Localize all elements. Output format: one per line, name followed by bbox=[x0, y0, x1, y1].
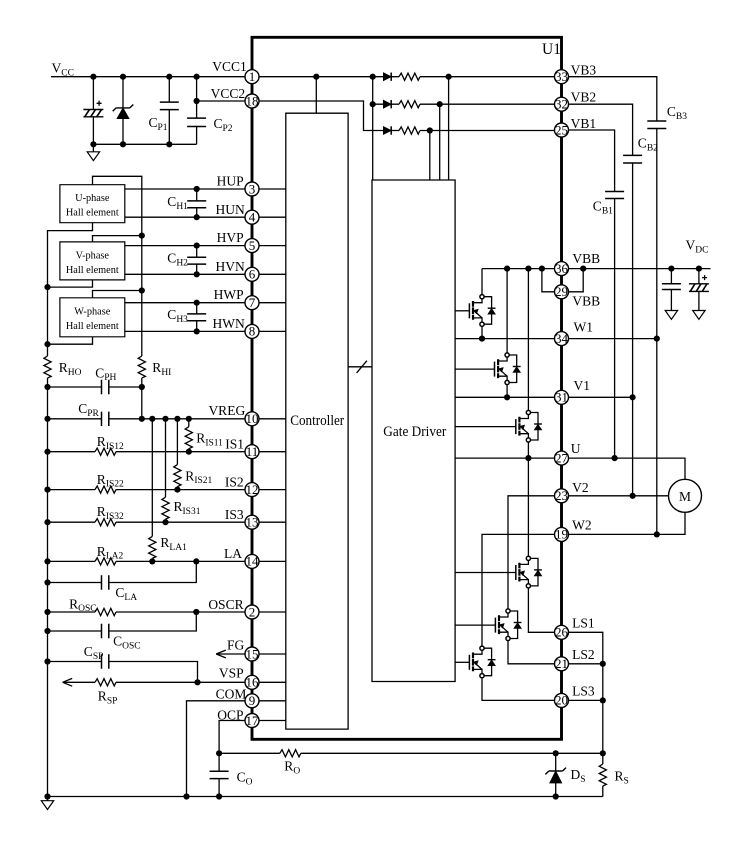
wire V hall top wire bbox=[93, 236, 142, 242]
node bias rail / C_PH bbox=[139, 384, 145, 390]
node row2 feed bbox=[370, 101, 376, 107]
wire controller VCC tap bbox=[315, 77, 317, 114]
svg-text:33: 33 bbox=[555, 69, 568, 84]
svg-text:V-phase: V-phase bbox=[76, 250, 110, 261]
wire Q4 source lead to LS1 bbox=[528, 588, 554, 632]
svg-text:HUP: HUP bbox=[217, 173, 244, 188]
node W1 / W-high source bbox=[479, 336, 485, 342]
resistor R_IS11 bbox=[185, 419, 192, 452]
svg-text:29: 29 bbox=[555, 284, 568, 299]
svg-text:6: 6 bbox=[249, 267, 256, 282]
svg-text:9: 9 bbox=[249, 693, 256, 708]
svg-text:VBB: VBB bbox=[572, 294, 600, 309]
pin 21 (LS2) bbox=[555, 656, 569, 671]
svg-text:21: 21 bbox=[555, 656, 568, 671]
wire VBB line bbox=[482, 268, 711, 270]
svg-text:7: 7 bbox=[249, 295, 256, 310]
resistor R_S bbox=[599, 753, 606, 796]
svg-text:11: 11 bbox=[246, 444, 259, 459]
svg-text:HUN: HUN bbox=[216, 202, 245, 217]
svg-text:14: 14 bbox=[246, 554, 260, 569]
svg-text:LA: LA bbox=[224, 546, 242, 561]
svg-text:31: 31 bbox=[555, 390, 568, 405]
ground symbol VCC section bbox=[87, 144, 99, 160]
wire IS3 row bbox=[48, 521, 246, 523]
transistor Q6 low-side W bbox=[455, 646, 495, 678]
wire Q1 drain lead bbox=[481, 269, 483, 295]
motor M bbox=[669, 479, 702, 512]
pin 29 (VBB) bbox=[555, 284, 569, 299]
svg-text:20: 20 bbox=[555, 693, 568, 708]
wire LS3 wire bbox=[569, 699, 603, 701]
node left rail / W hall bbox=[44, 341, 50, 347]
node HVN / C_H2 bbox=[194, 271, 200, 277]
pin 15 (FG) bbox=[245, 646, 259, 661]
node VB3 / gate-driver drop bbox=[446, 74, 452, 80]
svg-text:27: 27 bbox=[555, 450, 569, 465]
wire HUN wire bbox=[125, 216, 245, 218]
node left rail / IS1 bbox=[44, 449, 50, 455]
wire HWN wire bbox=[125, 330, 245, 332]
block W-phase Hall element bbox=[60, 298, 125, 337]
wire VB3 to C_B3 and W phase tie bbox=[569, 77, 657, 535]
node IS1 / R_IS11 bbox=[186, 449, 192, 455]
svg-text:U: U bbox=[571, 441, 581, 456]
node VCC rail / VCC2 tie bbox=[194, 74, 200, 80]
wire U hall bottom wire + left rail upper bbox=[48, 223, 93, 356]
node left rail / IS2 bbox=[44, 487, 50, 493]
node VSP / C_SP bbox=[194, 679, 200, 685]
wire W1 row internal bbox=[455, 338, 554, 340]
wire VCC2 jog to row3 (pin18 to pin25) bbox=[259, 101, 555, 131]
transistor Q1 high-side W bbox=[455, 295, 495, 327]
node VCC rail / input cap bbox=[90, 74, 96, 80]
resistor R_HO bbox=[44, 356, 51, 378]
wire COM wire to ground bbox=[187, 701, 246, 797]
node IS3 / R_IS31 bbox=[162, 519, 168, 525]
node V tie / V2 bbox=[630, 493, 636, 499]
node VBB / pin36-29 left bracket bbox=[539, 266, 545, 272]
resistor R_IS31 bbox=[162, 419, 169, 522]
node VBB / V-high drain bbox=[504, 266, 510, 272]
wire pin36-29 left bracket bbox=[542, 269, 555, 292]
node HUP / C_H1 bbox=[194, 186, 200, 192]
node VCC1 / row2 feed bbox=[370, 74, 376, 80]
svg-text:17: 17 bbox=[246, 713, 260, 728]
pin 19 (W2) bbox=[555, 527, 569, 542]
wire VB2 to C_B2 and V phase tie bbox=[569, 104, 633, 496]
transistor Q2 high-side V bbox=[455, 353, 520, 385]
capacitor C_H3 bbox=[187, 303, 206, 332]
pin 34 (W1) bbox=[555, 331, 569, 346]
wire HWP wire bbox=[125, 302, 245, 304]
node VCC rail / C_P1 bbox=[166, 74, 172, 80]
node ground rail / zener bbox=[120, 141, 126, 147]
pin 10 (VREG) bbox=[245, 411, 259, 426]
node LS rail / LS2 bbox=[600, 661, 606, 667]
node bias rail / W hall bbox=[139, 287, 145, 293]
capacitor C_OSC bbox=[102, 624, 109, 638]
node HWN / C_H3 bbox=[194, 328, 200, 334]
node left rail / LA bbox=[44, 558, 50, 564]
wire VCC supply rail bbox=[51, 76, 245, 78]
wire Q6 source lead to LS3 bbox=[482, 678, 555, 701]
wire C_LA row bbox=[48, 561, 197, 582]
wire row1-row2 feed / gate driver corner bbox=[372, 77, 374, 180]
capacitor C_O bbox=[210, 753, 229, 796]
node VREG / R_LA1 bbox=[149, 416, 155, 422]
svg-text:V1: V1 bbox=[574, 378, 591, 393]
svg-text:23: 23 bbox=[555, 488, 568, 503]
pin 32 (VB2) bbox=[555, 97, 569, 112]
svg-text:W1: W1 bbox=[574, 320, 594, 335]
svg-text:8: 8 bbox=[249, 324, 256, 339]
wire W hall top wire bbox=[93, 291, 142, 298]
svg-text:Hall element: Hall element bbox=[66, 321, 119, 332]
capacitor C_P1 bbox=[160, 77, 179, 145]
wire V1 row external bbox=[569, 396, 633, 398]
capacitor C_B3 bbox=[647, 121, 666, 129]
pin 6 (HVN) bbox=[245, 267, 259, 282]
node VREG / R_HI bbox=[139, 416, 145, 422]
capacitor C_SP bbox=[102, 654, 109, 668]
wire VB2 drop to gate driver bbox=[439, 104, 441, 180]
resistor R_LA1 bbox=[149, 419, 156, 562]
pin 12 (IS2) bbox=[245, 482, 259, 497]
node OSCR / C_OSC riser bbox=[193, 609, 199, 615]
wire IS1 row bbox=[48, 451, 246, 453]
wire Q4 drain lead bbox=[527, 458, 529, 556]
pin 20 (LS3) bbox=[555, 693, 569, 708]
wire R_HI lower lead bbox=[141, 378, 143, 419]
node VCC1 / controller tap bbox=[313, 74, 319, 80]
resistor R_IS21 bbox=[174, 419, 181, 490]
block U-phase Hall element bbox=[60, 185, 125, 223]
node ground rail / C_P1 bbox=[166, 141, 172, 147]
svg-text:10: 10 bbox=[246, 411, 259, 426]
wire row2 to VB2 (pin32) bbox=[373, 103, 555, 105]
wire LS1 tie rail bbox=[569, 632, 603, 753]
svg-text:19: 19 bbox=[555, 527, 568, 542]
node VB2 / gate-driver drop bbox=[437, 101, 443, 107]
pin 26 (LS1) bbox=[555, 625, 569, 640]
op-amp U1 IC outline box bbox=[252, 37, 562, 739]
node sense line / R_S / LS rail bbox=[600, 750, 606, 756]
node VBB / pin36-29 right bracket bbox=[580, 266, 586, 272]
pin 4 (HUN) bbox=[245, 210, 259, 225]
svg-text:34: 34 bbox=[555, 331, 569, 346]
wire W1 row external bbox=[569, 338, 657, 340]
node ground / COM bbox=[183, 793, 189, 799]
wire VSP row bbox=[63, 681, 245, 683]
node VBB / VDC ceramic cap bbox=[668, 266, 674, 272]
pin 16 (VSP) bbox=[245, 675, 259, 690]
svg-text:HWP: HWP bbox=[214, 287, 244, 302]
wire HVN wire bbox=[125, 273, 245, 275]
svg-text:16: 16 bbox=[246, 675, 260, 690]
resistor R_O bbox=[280, 750, 301, 757]
wire VCC2 wire to pin 18 bbox=[197, 100, 245, 102]
svg-text:OCP: OCP bbox=[217, 707, 243, 722]
svg-text:U-phase: U-phase bbox=[75, 193, 110, 204]
capacitor C_PH bbox=[102, 380, 109, 394]
pin 18 (VCC2) bbox=[245, 93, 259, 108]
capacitor C_H1 bbox=[187, 189, 206, 217]
wire Q2 source lead bbox=[506, 385, 508, 398]
node HWP / C_H3 bbox=[194, 300, 200, 306]
pin 2 (OSCR) bbox=[245, 604, 259, 619]
capacitor VDC ceramic bbox=[662, 269, 681, 311]
svg-text:Hall element: Hall element bbox=[66, 265, 119, 276]
svg-text:M: M bbox=[679, 489, 691, 504]
wire Q3 drain lead bbox=[527, 269, 529, 411]
node VBB / U-high drain bbox=[525, 266, 531, 272]
ground symbol VDC electrolytic bbox=[693, 311, 705, 320]
resistor bootstrap row3 bbox=[399, 127, 420, 134]
wire Q3 source lead bbox=[527, 442, 529, 458]
pin 11 (IS1) bbox=[245, 444, 259, 459]
resistor R_OSC bbox=[95, 608, 116, 615]
wire V hall bottom wire bbox=[48, 280, 93, 287]
node left rail / C_SP bbox=[44, 658, 50, 664]
wire HVP wire bbox=[125, 245, 245, 247]
capacitor C_LA bbox=[102, 575, 109, 589]
node left rail / OSCR bbox=[44, 609, 50, 615]
wire hall bias rail (U hall top to R_HI) bbox=[93, 176, 142, 356]
svg-text:V2: V2 bbox=[572, 480, 589, 495]
node VREG / R_IS11 bbox=[186, 416, 192, 422]
transistor Q3 high-side U bbox=[455, 410, 542, 442]
svg-text:COM: COM bbox=[216, 686, 247, 701]
wire FG wire bbox=[216, 653, 245, 655]
node IS2 / R_IS21 bbox=[174, 487, 180, 493]
wire C_PH row bbox=[48, 386, 142, 388]
wire VCC1 row to VB3 (pin1 to pin33) bbox=[259, 76, 555, 78]
svg-text:VB1: VB1 bbox=[571, 116, 597, 131]
svg-text:IS3: IS3 bbox=[225, 507, 244, 522]
node U / U-high source / U-low drain bbox=[525, 455, 531, 461]
wire VB1 to C_B1 and U tie bbox=[569, 130, 615, 458]
pin 27 (U) bbox=[555, 450, 569, 465]
capacitor electrolytic input (polarized) bbox=[83, 77, 103, 145]
resistor bootstrap row1 bbox=[399, 73, 420, 80]
node ground rail / left rail bbox=[44, 793, 50, 799]
node VBB / VDC electrolytic cap bbox=[696, 266, 702, 272]
node V1 / V-high source bbox=[504, 394, 510, 400]
svg-text:32: 32 bbox=[555, 97, 568, 112]
wire OSCR row bbox=[48, 611, 246, 613]
node W tie / W2 bbox=[654, 531, 660, 537]
svg-text:15: 15 bbox=[246, 646, 259, 661]
node bias rail / V hall bbox=[139, 233, 145, 239]
wire V1 row internal bbox=[455, 396, 554, 398]
wire OCP wire bbox=[219, 721, 245, 754]
wire V2 row internal bbox=[508, 496, 555, 609]
node left rail / V hall bbox=[44, 284, 50, 290]
pin 5 (HVP) bbox=[245, 238, 259, 253]
capacitor C_P2 bbox=[187, 101, 206, 144]
node VB1 / gate-driver drop bbox=[427, 127, 433, 133]
svg-text:4: 4 bbox=[249, 210, 256, 225]
pin 25 (VB1) bbox=[555, 122, 569, 137]
svg-text:Hall element: Hall element bbox=[66, 207, 119, 218]
block V-phase Hall element bbox=[60, 242, 125, 280]
capacitor VDC electrolytic (polarized) bbox=[689, 269, 709, 311]
node VCC2 / C_P2 bbox=[194, 98, 200, 104]
block Gate Driver box bbox=[372, 180, 455, 682]
svg-text:LS2: LS2 bbox=[572, 647, 595, 662]
wire main ground rail bbox=[48, 796, 603, 798]
wire stubs left pins to Controller bbox=[259, 189, 286, 721]
node LS rail / LS3 bbox=[600, 697, 606, 703]
wire W2 row internal bbox=[482, 534, 555, 646]
wire C_OSC row bbox=[48, 612, 197, 631]
svg-text:18: 18 bbox=[246, 93, 259, 108]
node LA / C_LA riser bbox=[193, 558, 199, 564]
resistor bootstrap row2 bbox=[399, 101, 420, 108]
resistor R_IS32 bbox=[95, 519, 116, 526]
wire left bias rail (R_HO to ground) bbox=[47, 378, 49, 797]
pin 9 (COM) bbox=[245, 693, 259, 708]
wire current sense row (OCP filter) bbox=[219, 752, 603, 754]
resistor R_IS22 bbox=[95, 486, 116, 493]
resistor R_HI bbox=[138, 356, 145, 378]
node HUN / C_H1 bbox=[194, 214, 200, 220]
wire VCC1-VCC2 tie bbox=[196, 77, 198, 101]
pin 14 (LA) bbox=[245, 554, 259, 569]
diode bootstrap D row3 bbox=[383, 127, 391, 135]
bus slash mark bbox=[357, 361, 367, 373]
wire LS2 wire bbox=[569, 663, 603, 665]
node ground / C_O bbox=[216, 793, 222, 799]
pin 33 (VB3) bbox=[555, 69, 569, 84]
wire U row external to motor bbox=[569, 458, 686, 479]
node ground / D_S bbox=[553, 793, 559, 799]
capacitor C_B2 bbox=[623, 155, 642, 163]
wire LA row bbox=[48, 560, 246, 562]
wire VREG row bbox=[48, 418, 246, 420]
pin 23 (V2) bbox=[555, 488, 569, 503]
svg-text:U1: U1 bbox=[542, 41, 561, 58]
capacitor C_H2 bbox=[187, 246, 206, 275]
zener diode VCC clamp bbox=[113, 77, 134, 145]
wire VCC local ground rail bbox=[93, 143, 196, 145]
node U tie / U line bbox=[612, 455, 618, 461]
pin 31 (V1) bbox=[555, 390, 569, 405]
node sense line / D_S bbox=[553, 750, 559, 756]
node VREG / R_IS21 bbox=[174, 416, 180, 422]
svg-text:VREG: VREG bbox=[208, 403, 245, 418]
svg-text:VB2: VB2 bbox=[571, 90, 597, 105]
wire U row internal bbox=[455, 457, 554, 459]
node left rail / IS3 bbox=[44, 519, 50, 525]
node left rail / C_OSC bbox=[44, 628, 50, 634]
wire W2 row external to motor bbox=[569, 512, 686, 534]
svg-text:FG: FG bbox=[227, 638, 245, 653]
pin 8 (HWN) bbox=[245, 324, 259, 339]
svg-text:VBB: VBB bbox=[572, 251, 600, 266]
node HVP / C_H2 bbox=[194, 243, 200, 249]
wire Q5 source lead to LS2 bbox=[508, 641, 555, 664]
svg-text:VCC1: VCC1 bbox=[212, 59, 247, 74]
zener diode D_S bbox=[545, 753, 566, 796]
wire W hall bottom wire bbox=[48, 337, 93, 344]
arrow FG output bbox=[216, 650, 226, 658]
resistor R_LA2 bbox=[95, 558, 116, 565]
svg-text:36: 36 bbox=[555, 261, 569, 276]
capacitor C_PR bbox=[102, 412, 109, 426]
node W tie / W1 bbox=[654, 336, 660, 342]
node left rail / C_PH bbox=[44, 384, 50, 390]
svg-text:OSCR: OSCR bbox=[208, 597, 243, 612]
svg-text:5: 5 bbox=[249, 238, 256, 253]
svg-text:Gate Driver: Gate Driver bbox=[383, 424, 446, 440]
svg-text:W2: W2 bbox=[572, 518, 592, 533]
svg-text:LS3: LS3 bbox=[572, 684, 595, 699]
node ground rail / input cap bbox=[90, 141, 96, 147]
transistor Q5 low-side V bbox=[455, 609, 521, 641]
wire pin36-29 right bracket bbox=[569, 269, 584, 292]
capacitor C_B1 bbox=[605, 192, 624, 199]
wire IS2 row bbox=[48, 489, 246, 491]
svg-text:VB3: VB3 bbox=[571, 63, 597, 78]
pin 7 (HWP) bbox=[245, 295, 259, 310]
wire VB1 drop to gate driver bbox=[429, 131, 431, 181]
svg-text:13: 13 bbox=[246, 515, 259, 530]
svg-text:3: 3 bbox=[249, 181, 256, 196]
ground symbol main rail bbox=[41, 797, 53, 810]
svg-text:VCC2: VCC2 bbox=[211, 86, 246, 101]
transistor Q4 low-side U bbox=[455, 556, 542, 588]
ground symbol VDC ceramic bbox=[665, 311, 677, 320]
svg-text:1: 1 bbox=[249, 69, 256, 84]
arrow VSP input bbox=[63, 678, 73, 686]
svg-text:IS1: IS1 bbox=[225, 437, 244, 452]
diode bootstrap D row2 bbox=[383, 100, 391, 108]
svg-text:HVP: HVP bbox=[217, 230, 244, 245]
pin 1 (VCC1) bbox=[245, 69, 259, 84]
wire bus Controller to Gate Driver bbox=[348, 366, 372, 368]
svg-text:LS1: LS1 bbox=[572, 615, 595, 630]
block Controller box bbox=[286, 113, 348, 729]
svg-text:W-phase: W-phase bbox=[74, 307, 110, 318]
svg-text:HWN: HWN bbox=[213, 316, 245, 331]
svg-text:Controller: Controller bbox=[290, 413, 344, 429]
pin 13 (IS3) bbox=[245, 515, 259, 530]
node V tie / V1 bbox=[630, 394, 636, 400]
svg-text:26: 26 bbox=[555, 625, 569, 640]
node left rail / VREG bbox=[44, 416, 50, 422]
wire HUP wire bbox=[125, 188, 245, 190]
svg-text:12: 12 bbox=[246, 482, 259, 497]
node VREG / R_IS31 bbox=[162, 416, 168, 422]
wire V2 row external to motor bbox=[569, 495, 669, 497]
svg-text:25: 25 bbox=[555, 122, 568, 137]
pin 17 (OCP) bbox=[245, 713, 259, 728]
wire C_SP row bbox=[48, 662, 198, 683]
resistor R_SP bbox=[95, 679, 116, 686]
diode bootstrap D row1 bbox=[383, 73, 391, 81]
svg-text:2: 2 bbox=[249, 604, 256, 619]
svg-text:HVN: HVN bbox=[216, 259, 245, 274]
svg-text:IS2: IS2 bbox=[225, 474, 244, 489]
pin 36 (VBB) bbox=[555, 261, 569, 276]
node LA / R_LA1 bbox=[149, 558, 155, 564]
resistor R_IS12 bbox=[95, 448, 116, 455]
wire VB3 drop to gate driver bbox=[448, 77, 450, 180]
wire Q2 drain lead bbox=[506, 269, 508, 353]
svg-text:VSP: VSP bbox=[219, 665, 244, 680]
